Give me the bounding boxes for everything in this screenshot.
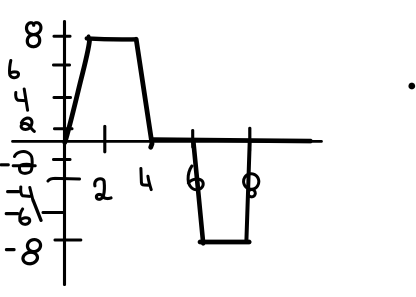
waveform falling edge — [136, 39, 152, 147]
label y=2 — [21, 118, 34, 131]
tick y=-8 — [55, 239, 81, 242]
tick x=6 — [191, 131, 194, 147]
tick x=8 — [248, 128, 251, 150]
tick x=2 — [103, 126, 106, 151]
label x=4 — [141, 169, 151, 190]
y-axis — [63, 22, 66, 285]
tick y=8 — [54, 35, 70, 38]
waveform rising edge — [65, 41, 90, 143]
tick y=4 — [54, 96, 71, 99]
label x=2 — [95, 179, 111, 200]
x-axis — [13, 140, 322, 143]
label x=6 — [188, 166, 203, 190]
label y=-6 digit — [20, 209, 30, 224]
tick y=-4 — [48, 178, 80, 181]
label y=-4 digit — [21, 187, 33, 201]
label y=-2 digit — [13, 152, 35, 174]
tick y=-6 — [43, 211, 64, 214]
label y=-4 minus — [8, 190, 19, 193]
label y=-8 minus — [7, 248, 15, 251]
tick y=6 — [54, 64, 70, 67]
dip right edge — [246, 142, 249, 241]
stray dot — [408, 83, 415, 90]
label y=6 — [10, 61, 19, 78]
label y=-2 minus — [1, 163, 8, 166]
tick y=2 — [55, 127, 73, 130]
tick y=-2 — [54, 158, 71, 161]
stray slash — [33, 200, 41, 220]
label y=-6 minus — [6, 212, 17, 215]
label y=-8 digit — [22, 238, 42, 265]
waveform top edge — [87, 38, 136, 39]
waveform baseline right of trapezoid — [153, 140, 311, 142]
dip left edge — [193, 142, 203, 244]
waveform top-left corner bump — [87, 36, 91, 38]
label x=8 — [242, 172, 260, 197]
label y=8 — [26, 23, 40, 47]
label y=4 — [16, 89, 28, 110]
dip bottom edge — [200, 240, 249, 245]
